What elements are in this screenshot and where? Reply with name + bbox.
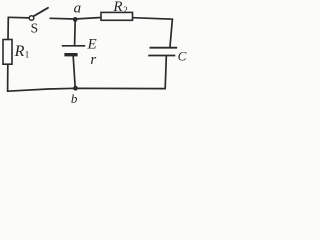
svg-text:S: S [31,20,39,35]
svg-text:a: a [74,1,82,17]
svg-text:2: 2 [123,5,128,15]
svg-text:E: E [87,37,97,53]
svg-text:R: R [112,0,122,15]
svg-text:1: 1 [25,50,30,60]
svg-text:b: b [71,91,78,104]
svg-text:r: r [90,52,96,68]
svg-text:R: R [14,43,25,60]
svg-text:C: C [178,48,187,63]
